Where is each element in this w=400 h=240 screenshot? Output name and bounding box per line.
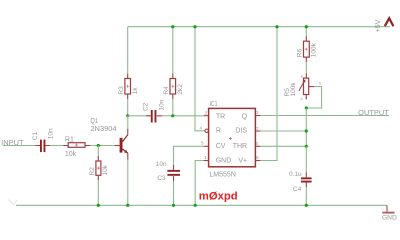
- wire R4 to TR node: [172, 99, 174, 116]
- wire R2 to ground rail: [97, 180, 99, 205]
- wire collector node to C2: [128, 115, 146, 117]
- svg-text:2N3904: 2N3904: [90, 126, 116, 133]
- resistor R1: [65, 136, 85, 158]
- wire GND net pin1 down: [195, 161, 203, 206]
- node top rail V+: [275, 25, 278, 28]
- wire C1 to R1: [50, 145, 63, 147]
- svg-text:10n: 10n: [156, 161, 167, 168]
- svg-text:GND: GND: [382, 215, 397, 222]
- ground GND symbol: [382, 205, 397, 221]
- resistor R3 pins: [127, 74, 129, 100]
- resistor R6 pins: [305, 36, 307, 62]
- faint rail end mark: [9, 200, 18, 205]
- svg-text:R1: R1: [65, 136, 74, 143]
- svg-text:2k2: 2k2: [177, 84, 184, 95]
- svg-text:INPUT: INPUT: [1, 140, 24, 147]
- wire emitter to ground rail: [127, 160, 129, 205]
- node rail C4: [305, 204, 308, 207]
- node rail R2: [97, 204, 100, 207]
- pin 3 Q stub: [255, 115, 260, 117]
- svg-text:100k: 100k: [290, 82, 297, 97]
- svg-text:TR: TR: [216, 113, 225, 120]
- svg-text:Q1: Q1: [90, 118, 98, 125]
- pin 4 R bubble: [205, 129, 208, 132]
- svg-text:GND: GND: [216, 157, 232, 164]
- transistor Q1: [120, 129, 128, 160]
- svg-text:5: 5: [201, 140, 204, 146]
- svg-text:mØxpd: mØxpd: [199, 191, 238, 203]
- svg-text:10k: 10k: [102, 164, 109, 175]
- svg-text:S: S: [319, 82, 322, 86]
- wire Q output net: [260, 115, 389, 117]
- svg-text:C1: C1: [32, 132, 39, 141]
- svg-text:THR: THR: [233, 143, 247, 150]
- +5V supply symbol: [373, 18, 393, 32]
- node base junction: [97, 144, 100, 147]
- wire R3 column from rail: [127, 27, 129, 74]
- wire TR net from node to pin2: [173, 115, 204, 117]
- resistor R2 pins: [97, 156, 99, 180]
- wire C3 to ground rail: [173, 181, 175, 205]
- node top rail R4: [171, 25, 174, 28]
- pin R5 wiper stub: [309, 86, 314, 88]
- wire pin4 reset column from rail: [195, 27, 205, 131]
- svg-text:100k: 100k: [311, 42, 318, 57]
- wire R5 wiper: [306, 87, 321, 108]
- svg-text:R2: R2: [89, 167, 96, 176]
- svg-text:7: 7: [256, 126, 259, 132]
- svg-text:IC1: IC1: [210, 101, 218, 108]
- wire R5 node down to DIS/THR: [305, 108, 307, 146]
- svg-text:0.1u: 0.1u: [289, 171, 302, 178]
- resistor R3: [118, 79, 139, 95]
- svg-text:10k: 10k: [65, 151, 77, 158]
- svg-text:R6: R6: [296, 49, 303, 58]
- capacitor C2: [142, 99, 165, 122]
- node R5 bottom junction: [305, 106, 308, 109]
- wire C4 to ground rail: [305, 187, 307, 205]
- svg-text:6: 6: [256, 141, 259, 147]
- resistor R6: [296, 41, 317, 57]
- svg-text:C4: C4: [293, 186, 302, 193]
- svg-text:C3: C3: [157, 175, 166, 182]
- svg-text:C2: C2: [142, 102, 149, 111]
- wire R1 to base node: [90, 145, 115, 147]
- wire R6 column from rail: [305, 27, 307, 37]
- node top rail reset: [193, 25, 196, 28]
- capacitor C1 pins: [36, 145, 50, 147]
- potentiometer R5: [284, 75, 322, 101]
- pin 5 CV stub: [204, 145, 209, 147]
- node rail pin1: [194, 204, 197, 207]
- capacitor C4 pins: [305, 173, 307, 188]
- svg-text:OUTPUT: OUTPUT: [358, 110, 389, 117]
- svg-text:10n: 10n: [48, 128, 55, 139]
- svg-text:A: A: [300, 97, 303, 101]
- node top rail R6: [305, 25, 308, 28]
- svg-text:R4: R4: [163, 86, 170, 95]
- wire THR node down to C4: [305, 146, 307, 172]
- wire base node down to R2: [97, 146, 99, 157]
- wire THR net: [260, 145, 306, 147]
- resistor R2: [89, 161, 109, 176]
- node THR junction: [305, 145, 308, 148]
- svg-text:3: 3: [256, 110, 259, 116]
- svg-text:Q: Q: [242, 113, 248, 120]
- node rail emitter: [126, 204, 129, 207]
- node TR junction: [171, 114, 174, 117]
- wire R3 to collector node: [127, 99, 129, 116]
- resistor R4 pins: [172, 74, 174, 100]
- capacitor C1: [32, 128, 55, 152]
- svg-text:DIS: DIS: [235, 128, 247, 135]
- pin 6 THR stub: [255, 145, 260, 147]
- svg-text:4: 4: [200, 126, 203, 132]
- svg-text:2: 2: [205, 110, 208, 116]
- pin Q1 base stub: [115, 145, 120, 147]
- svg-text:LM555N: LM555N: [209, 171, 236, 178]
- svg-text:8: 8: [256, 155, 259, 161]
- svg-text:1: 1: [204, 155, 207, 161]
- svg-text:R: R: [216, 128, 221, 135]
- pin 8 V+ stub: [255, 160, 260, 162]
- wire C2 to TR node: [162, 115, 173, 117]
- node DIS junction: [305, 129, 308, 132]
- wire input net: [3, 145, 36, 147]
- svg-text:E: E: [301, 75, 304, 79]
- wire top +5V rail: [128, 26, 390, 28]
- wire DIS net: [260, 130, 306, 132]
- svg-text:R3: R3: [118, 86, 125, 95]
- pin 1 GND stub: [204, 160, 209, 162]
- node collector junction: [126, 114, 129, 117]
- potentiometer R5 pins: [305, 73, 307, 99]
- wire CV net pin5 to C3: [174, 146, 204, 170]
- pin 7 DIS stub: [255, 130, 260, 132]
- svg-text:1k: 1k: [132, 87, 139, 95]
- resistor R4: [163, 79, 184, 95]
- svg-text:+5V: +5V: [373, 19, 382, 32]
- capacitor C4: [289, 171, 312, 193]
- svg-text:V+: V+: [238, 157, 247, 164]
- resistor R1 pins: [63, 145, 90, 147]
- capacitor C2 pins: [146, 115, 162, 117]
- wire V+ column from rail: [260, 27, 277, 161]
- node rail C3: [172, 204, 175, 207]
- wire R6 to R5: [305, 62, 307, 73]
- wire R4 column from rail: [172, 27, 174, 74]
- wire bottom ground rail: [16, 204, 387, 206]
- capacitor C3 pins: [173, 165, 175, 181]
- svg-text:10n: 10n: [158, 99, 165, 110]
- pin 2 TR stub: [204, 115, 209, 117]
- wire collector to node: [127, 116, 129, 129]
- svg-text:CV: CV: [216, 143, 226, 150]
- op-amp IC1 LM555N box: [209, 108, 256, 166]
- capacitor C3: [156, 161, 180, 182]
